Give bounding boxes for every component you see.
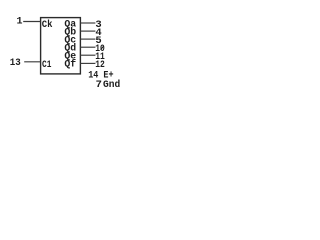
svg-text:Gnd: Gnd <box>103 79 120 91</box>
svg-text:Ck: Ck <box>42 19 53 31</box>
svg-text:Qf: Qf <box>64 59 76 71</box>
svg-text:1: 1 <box>17 16 23 27</box>
svg-text:7: 7 <box>96 79 102 91</box>
svg-text:13: 13 <box>10 57 21 69</box>
svg-text:C1: C1 <box>42 59 51 71</box>
